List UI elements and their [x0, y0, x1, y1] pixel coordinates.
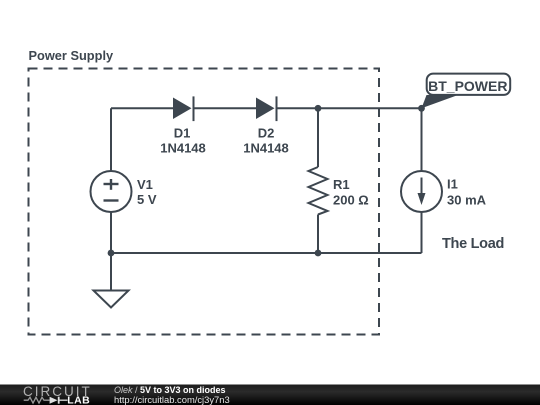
svg-text:D1: D1 — [174, 126, 191, 141]
wire to ground — [110, 253, 112, 291]
junction dot at R1 bottom — [315, 250, 322, 257]
ground — [94, 291, 129, 308]
svg-text:The Load: The Load — [442, 236, 504, 252]
junction dot at R1 top — [315, 105, 322, 112]
node BT_POWER flag box — [427, 74, 511, 95]
wire V1 bottom — [110, 213, 112, 254]
svg-text:LAB: LAB — [67, 395, 90, 405]
svg-text:I1: I1 — [447, 177, 458, 192]
wire R1 top branch — [317, 108, 319, 167]
resistor R1 — [309, 167, 328, 215]
svg-text:D2: D2 — [258, 126, 275, 141]
svg-text:R1: R1 — [333, 177, 350, 192]
enclosure dashed box (Power Supply) — [29, 69, 380, 335]
svg-text:200 Ω: 200 Ω — [333, 193, 369, 208]
wire between D1 and D2 — [195, 107, 257, 109]
wire bottom rail — [111, 252, 422, 254]
footer bar — [0, 385, 540, 405]
diode D2 — [256, 96, 277, 121]
svg-text:BT_POWER: BT_POWER — [428, 78, 507, 94]
wire node down to I1 — [421, 108, 423, 170]
wire top rail left segment — [111, 107, 173, 109]
wire I1 bottom to bottom rail — [421, 213, 423, 254]
wire V1 top to top rail — [110, 108, 112, 170]
svg-text:http://circuitlab.com/cj3y7n3: http://circuitlab.com/cj3y7n3 — [114, 394, 230, 405]
svg-text:V1: V1 — [137, 177, 153, 192]
current source I1 — [401, 171, 442, 212]
diode D1 — [173, 96, 194, 121]
svg-text:Power Supply: Power Supply — [29, 48, 114, 63]
junction dot at BT_POWER node — [418, 105, 425, 112]
svg-text:1N4148: 1N4148 — [243, 141, 289, 156]
svg-text:1N4148: 1N4148 — [160, 141, 206, 156]
wire R1 bottom branch — [317, 215, 319, 254]
svg-text:5 V: 5 V — [137, 192, 157, 207]
voltage source V1 — [91, 171, 132, 212]
junction dot at V1 bottom — [108, 250, 115, 257]
svg-text:30 mA: 30 mA — [447, 193, 487, 208]
wire D2 to node BT_POWER — [278, 107, 422, 109]
node BT_POWER flag pointer — [422, 95, 459, 108]
logo schematic glyph (resistor + diode) — [24, 397, 68, 404]
